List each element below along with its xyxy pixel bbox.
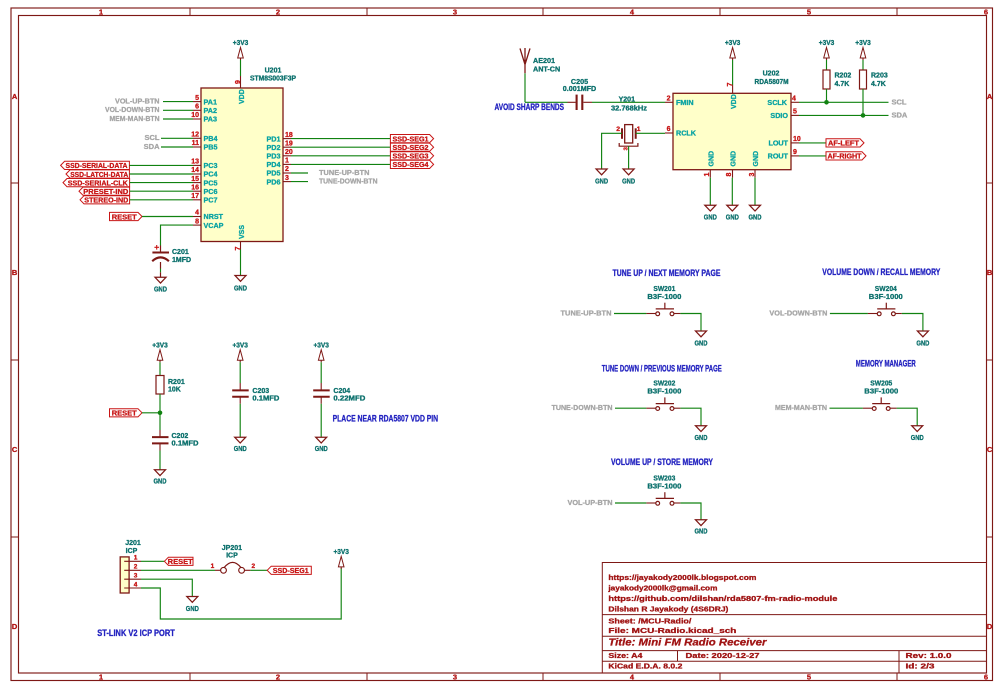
svg-text:C202: C202 (172, 433, 189, 440)
svg-text:File: MCU-Radio.kicad_sch: File: MCU-Radio.kicad_sch (608, 626, 737, 635)
switch SW203 (646, 502, 655, 504)
ground SW202 (696, 426, 707, 432)
svg-text:2: 2 (276, 8, 280, 17)
U202 pin 6 RCLK (665, 132, 673, 134)
svg-text:STEREO-IND: STEREO-IND (84, 196, 129, 205)
wire C201 to GND (160, 262, 162, 269)
J201 pin 2 (124, 569, 141, 571)
svg-text:VSS: VSS (239, 225, 246, 239)
svg-text:2: 2 (134, 564, 138, 571)
svg-text:6: 6 (984, 673, 988, 682)
svg-text:GND: GND (315, 444, 328, 453)
wire J201 pin4 to +3V3 (141, 568, 341, 619)
svg-text:SDIO: SDIO (770, 111, 788, 120)
svg-text:MEM-MAN-BTN: MEM-MAN-BTN (110, 114, 160, 123)
svg-text:ICP: ICP (226, 553, 238, 560)
wire Y201 pin2 to GND (602, 133, 622, 169)
svg-text:AF-RIGHT: AF-RIGHT (828, 152, 862, 161)
svg-text:10: 10 (191, 112, 199, 119)
svg-text:SCLK: SCLK (767, 98, 787, 107)
capacitor C203 (232, 389, 249, 391)
U201 pin 17 PC7 (193, 199, 201, 201)
svg-text:1: 1 (637, 126, 641, 133)
IC U202 body (673, 93, 791, 169)
svg-text:20: 20 (285, 149, 293, 156)
svg-text:1: 1 (99, 673, 103, 682)
ground SW205 (912, 426, 923, 432)
svg-text:6: 6 (667, 126, 671, 133)
U201 pin 7 VSS stub (240, 242, 242, 250)
svg-text:10: 10 (793, 136, 801, 143)
svg-text:9: 9 (235, 80, 242, 84)
ground below Y201 pin2 (596, 169, 607, 175)
svg-text:5: 5 (807, 8, 811, 17)
U202 pin 4 SCLK (791, 101, 799, 103)
svg-text:3: 3 (134, 573, 138, 580)
svg-text:LOUT: LOUT (768, 139, 788, 148)
wire antenna to C205 (525, 101, 568, 103)
wire PRESET-IND to U201 (130, 190, 193, 192)
svg-text:GND: GND (708, 151, 715, 167)
capacitor C205 pin left (568, 101, 576, 103)
capacitor C203 pin bottom (239, 397, 241, 404)
jumper JP201 (215, 569, 221, 571)
U201 pin 11 PB5 (193, 146, 201, 148)
svg-text:B: B (987, 268, 993, 277)
frame column ticks top (189, 8, 191, 16)
svg-text:GND: GND (154, 285, 167, 294)
svg-text:4: 4 (195, 210, 199, 217)
wire Y201 to RCLK (636, 132, 665, 134)
svg-text:6: 6 (984, 8, 988, 17)
svg-text:PLACE NEAR RDA5807 VDD PIN: PLACE NEAR RDA5807 VDD PIN (333, 414, 439, 424)
svg-text:R201: R201 (168, 379, 185, 386)
svg-text:1: 1 (99, 8, 103, 17)
svg-text:J201: J201 (125, 540, 141, 547)
U202 pin 3 GND stub (754, 170, 756, 178)
svg-text:VCAP: VCAP (204, 221, 224, 230)
svg-text:SDA: SDA (144, 142, 160, 151)
title block divider lines (602, 615, 986, 673)
ground below C202 (155, 470, 166, 476)
wire antenna down (524, 73, 526, 102)
wire MEM-MAN-BTN to SW205 (830, 407, 863, 409)
svg-text:Rev: 1.0.0: Rev: 1.0.0 (906, 651, 952, 660)
svg-text:RCLK: RCLK (676, 129, 697, 138)
svg-text:14: 14 (191, 167, 199, 174)
U202 pin 9 ROUT (791, 155, 799, 157)
svg-text:C204: C204 (333, 388, 350, 395)
svg-text:TUNE DOWN / PREVIOUS MEMORY PA: TUNE DOWN / PREVIOUS MEMORY PAGE (602, 363, 722, 373)
wire PD3 to SSD-SEG3 (291, 155, 390, 157)
wire R202 to SCL net (826, 89, 828, 102)
U201 pin 2 PD5 (283, 172, 291, 174)
svg-text:1: 1 (285, 158, 289, 165)
svg-text:TUNE-UP-BTN: TUNE-UP-BTN (561, 308, 612, 317)
svg-text:GND: GND (726, 212, 739, 221)
svg-text:https://github.com/dilshan/rda: https://github.com/dilshan/rda5807-fm-ra… (608, 594, 837, 603)
svg-text:RESET: RESET (112, 212, 137, 221)
capacitor C202 (152, 436, 169, 438)
svg-text:SCL: SCL (145, 133, 160, 142)
global label SSD-SEG3 (390, 152, 433, 160)
wire SSD-LATCH-DATA to U201 (129, 173, 193, 175)
ground U202 pin1 (705, 205, 716, 211)
svg-text:TUNE-DOWN-BTN: TUNE-DOWN-BTN (552, 403, 613, 412)
svg-text:C201: C201 (172, 249, 189, 256)
ground J201 pin3 (187, 597, 198, 603)
wire PD1 to SSD-SEG1 (291, 138, 390, 140)
svg-text:FMIN: FMIN (676, 98, 694, 107)
ground below C204 (316, 437, 327, 443)
wire SSD-SERIAL-DATA to U201 (129, 164, 193, 166)
svg-text:R203: R203 (871, 73, 888, 80)
resistor R203 (860, 70, 867, 89)
svg-text:1MFD: 1MFD (172, 257, 191, 264)
capacitor C204 pin bottom (320, 397, 322, 404)
switch SW205 (863, 407, 872, 409)
svg-text:PA1: PA1 (204, 97, 217, 106)
svg-text:9: 9 (793, 149, 797, 156)
svg-text:U202: U202 (763, 71, 780, 78)
svg-text:11: 11 (192, 140, 200, 147)
svg-text:16: 16 (191, 184, 199, 191)
wire U202 GND1 (709, 178, 711, 206)
svg-text:Title: Mini FM Radio Receiver: Title: Mini FM Radio Receiver (608, 637, 767, 649)
svg-text:GND: GND (753, 151, 760, 167)
svg-text:19: 19 (285, 140, 293, 147)
wire +3V3 to U201 VDD (240, 60, 242, 76)
wire VOL-UP-BTN to U201 (163, 101, 193, 103)
U201 pin 20 PD3 (283, 155, 291, 157)
svg-text:SSD-SEG1: SSD-SEG1 (273, 566, 309, 575)
global label RESET (110, 212, 143, 220)
wire +3V3 to C204 (320, 362, 322, 383)
svg-text:32.768kHz: 32.768kHz (611, 106, 648, 113)
U202 pin 7 VDD stub (732, 85, 734, 93)
frame column ticks bottom (189, 673, 191, 681)
svg-text:GND: GND (154, 477, 167, 486)
svg-text:STM8S003F3P: STM8S003F3P (250, 76, 296, 83)
U201 pin 19 PD2 (283, 146, 291, 148)
op-amp U201 body (201, 88, 283, 242)
svg-text:GND: GND (622, 177, 635, 186)
svg-text:2: 2 (251, 563, 255, 570)
svg-text:3: 3 (453, 8, 457, 17)
U201 pin 13 PC3 (193, 164, 201, 166)
wire PD to TUNE-DOWN-BTN (291, 181, 308, 183)
global label SSD-SEG1 at JP201 (267, 566, 311, 574)
svg-text:VOL-UP-BTN: VOL-UP-BTN (115, 97, 160, 106)
U201 pin 8 VCAP (193, 224, 201, 226)
svg-text:1: 1 (211, 563, 215, 570)
svg-text:1: 1 (704, 172, 711, 176)
wire VOL-UP-BTN to SW203 (615, 502, 646, 504)
junction SDA (861, 113, 866, 118)
svg-text:0.1MFD: 0.1MFD (252, 395, 279, 402)
title block outline (602, 563, 986, 674)
svg-text:2: 2 (616, 126, 620, 133)
wire MEM-MAN-BTN to U201 (163, 118, 193, 120)
svg-text:SCL: SCL (892, 98, 907, 107)
wire Y201 case to GND (628, 146, 630, 169)
svg-text:VOLUME UP / STORE MEMORY: VOLUME UP / STORE MEMORY (611, 457, 713, 467)
capacitor C201 (152, 252, 169, 254)
crystal Y201 (625, 125, 633, 143)
svg-text:4.7K: 4.7K (835, 81, 850, 88)
wire U202 GND3 (754, 178, 756, 206)
svg-text:A: A (987, 92, 993, 101)
svg-text:0.001MFD: 0.001MFD (563, 84, 597, 93)
capacitor C202 pin bottom (159, 444, 161, 451)
svg-text:8: 8 (195, 218, 199, 225)
ground U202 pin8 (727, 205, 738, 211)
ground SW201 (696, 331, 707, 337)
svg-text:VDD: VDD (239, 89, 246, 104)
wire SCL to U201 (161, 137, 193, 139)
svg-text:PC7: PC7 (204, 196, 218, 205)
wire TUNE-UP-BTN to SW201 (614, 313, 646, 315)
svg-text:PA3: PA3 (204, 115, 217, 124)
global label RESET at J201 (164, 557, 193, 565)
capacitor C202 pin top (159, 430, 161, 437)
svg-text:TUNE-DOWN-BTN: TUNE-DOWN-BTN (319, 177, 378, 186)
global label SSD-LATCH-DATA (66, 170, 129, 178)
svg-text:GND: GND (749, 212, 762, 221)
svg-text:TUNE UP / NEXT MEMORY PAGE: TUNE UP / NEXT MEMORY PAGE (613, 268, 721, 278)
ground below C203 (235, 437, 246, 443)
svg-text:Y201: Y201 (619, 97, 635, 104)
ground U202 pin3 (750, 205, 761, 211)
svg-text:B3F-1000: B3F-1000 (647, 482, 681, 491)
J201 pin 1 (124, 560, 141, 562)
U201 pin 12 PB4 (193, 137, 201, 139)
wire C202 to GND (159, 451, 161, 470)
svg-text:MEMORY MANAGER: MEMORY MANAGER (856, 359, 916, 369)
svg-text:6: 6 (195, 104, 199, 111)
wire VSS to GND (240, 250, 242, 276)
ground below U201 VSS (235, 276, 246, 282)
capacitor C201 pin top (160, 246, 162, 253)
wire VCAP to C201 (161, 225, 194, 245)
switch SW202 (646, 407, 655, 409)
svg-text:C: C (12, 445, 18, 454)
antenna AE201 (520, 48, 530, 73)
wire VOL-DOWN-BTN to U201 (163, 109, 193, 111)
svg-text:GND: GND (695, 339, 708, 348)
svg-text:A: A (12, 92, 18, 101)
wire SDA to U201 (161, 146, 193, 148)
svg-text:B3F-1000: B3F-1000 (647, 292, 681, 301)
svg-text:17: 17 (191, 193, 199, 200)
svg-text:3: 3 (453, 673, 457, 682)
wire SCLK to SCL (799, 101, 889, 103)
wire R201 to junction (159, 394, 161, 413)
ground SW203 (696, 520, 707, 526)
svg-text:PB4: PB4 (204, 134, 218, 143)
svg-text:KiCad E.D.A. 8.0.2: KiCad E.D.A. 8.0.2 (608, 662, 682, 671)
U201 pin 16 PC6 (193, 190, 201, 192)
svg-text:15: 15 (191, 176, 199, 183)
svg-text:AVOID SHARP BENDS: AVOID SHARP BENDS (495, 102, 565, 112)
global label RESET at R201 (110, 409, 143, 417)
J201 pin 3 (124, 578, 141, 580)
U201 pin 3 PD6 (283, 181, 291, 183)
svg-text:8: 8 (726, 172, 733, 176)
wire LOUT to AF-LEFT (799, 142, 826, 144)
svg-text:ST-LINK V2 ICP PORT: ST-LINK V2 ICP PORT (97, 628, 175, 638)
wire J201 pin3 to GND (141, 579, 192, 596)
wire STEREO-IND to U201 (130, 199, 193, 201)
svg-text:VDD: VDD (731, 94, 738, 109)
wire PD to TUNE-UP-BTN (291, 172, 308, 174)
svg-text:VOLUME DOWN / RECALL MEMORY: VOLUME DOWN / RECALL MEMORY (822, 267, 940, 277)
wire SW203 to GND (680, 503, 701, 520)
capacitor C203 pin top (239, 383, 241, 390)
capacitor C204 pin top (320, 383, 322, 390)
svg-text:5: 5 (195, 95, 199, 102)
svg-text:ANT-CN: ANT-CN (533, 64, 560, 73)
global label SSD-SEG4 (390, 160, 433, 168)
svg-text:2: 2 (285, 166, 289, 173)
U201 pin 15 PC5 (193, 182, 201, 184)
wire R203 to SDA net (862, 89, 864, 115)
wire RESET to junction (142, 412, 160, 414)
wire VOL-DOWN-BTN to SW204 (830, 313, 868, 315)
svg-text:PB5: PB5 (204, 143, 218, 152)
svg-text:U201: U201 (265, 68, 282, 75)
global label SSD-SEG2 (390, 143, 433, 151)
svg-text:RESET: RESET (112, 409, 137, 418)
svg-text:C203: C203 (252, 388, 269, 395)
ground SW204 (917, 331, 928, 337)
capacitor C204 (313, 389, 330, 391)
junction SCL (824, 100, 829, 105)
svg-text:1: 1 (134, 555, 138, 562)
svg-text:B: B (12, 268, 18, 277)
global label STEREO-IND (80, 196, 130, 204)
svg-text:Id: 2/3: Id: 2/3 (906, 662, 935, 671)
wire J201 pin1 to RESET (141, 560, 164, 562)
svg-text:Size: A4: Size: A4 (608, 651, 643, 660)
wire C204 to GND (320, 404, 322, 437)
svg-text:RESET: RESET (168, 557, 193, 566)
svg-text:GND: GND (234, 444, 247, 453)
svg-text:https://jayakody2000lk.blogspo: https://jayakody2000lk.blogspot.com (608, 573, 756, 582)
U202 pin 10 LOUT (791, 142, 799, 144)
U202 pin 2 FMIN (665, 101, 673, 103)
wire +3V3 to C203 (239, 362, 241, 383)
U202 pin 1 GND stub (709, 170, 711, 178)
svg-text:4.7K: 4.7K (871, 81, 886, 88)
wire SW204 to GND (902, 314, 923, 332)
connector J201 body (120, 557, 129, 593)
wire J201 pin2 to JP201 (141, 569, 215, 571)
U201 pin 14 PC4 (193, 173, 201, 175)
svg-text:GND: GND (186, 604, 199, 613)
svg-text:GND: GND (695, 433, 708, 442)
switch SW201 (646, 313, 655, 315)
svg-text:AF-LEFT: AF-LEFT (828, 139, 859, 148)
svg-text:7: 7 (727, 82, 734, 86)
svg-text:10K: 10K (168, 386, 181, 393)
wire SW202 to GND (680, 408, 701, 426)
svg-text:PA2: PA2 (204, 106, 217, 115)
svg-text:3: 3 (285, 175, 289, 182)
svg-text:GND: GND (911, 433, 924, 442)
global label AF-RIGHT (826, 152, 866, 160)
wire PD2 to SSD-SEG2 (291, 146, 390, 148)
ground below Y201 case (623, 169, 634, 175)
capacitor C205 pin right (583, 101, 592, 103)
svg-text:3: 3 (749, 172, 756, 176)
svg-text:VOL-DOWN-BTN: VOL-DOWN-BTN (769, 308, 827, 317)
wire SW201 to GND (680, 314, 701, 332)
svg-text:GND: GND (234, 284, 247, 293)
U201 pin 6 PA2 (193, 109, 201, 111)
svg-text:0.1MFD: 0.1MFD (172, 441, 199, 448)
svg-text:GND: GND (595, 177, 608, 186)
svg-text:RDA5807M: RDA5807M (755, 79, 789, 86)
svg-text:B3F-1000: B3F-1000 (869, 292, 903, 301)
U201 pin 1 PD4 (283, 163, 291, 165)
svg-text:Sheet: /MCU-Radio/: Sheet: /MCU-Radio/ (608, 616, 691, 625)
svg-text:B3F-1000: B3F-1000 (864, 387, 898, 396)
svg-text:GND: GND (695, 527, 708, 536)
wire SDIO to SDA (799, 114, 889, 116)
svg-text:SSD-SEG4: SSD-SEG4 (393, 160, 430, 169)
switch SW204 (868, 313, 877, 315)
U201 pin 4 NRST (193, 216, 201, 218)
svg-text:ROUT: ROUT (768, 152, 789, 161)
U201 pin 10 PA3 (193, 118, 201, 120)
svg-text:Dilshan R Jayakody (4S6DRJ): Dilshan R Jayakody (4S6DRJ) (608, 605, 729, 614)
U201 pin 5 PA1 (193, 101, 201, 103)
wire junction to C202 (159, 413, 161, 430)
svg-text:2: 2 (667, 95, 671, 102)
svg-text:4: 4 (134, 581, 138, 588)
svg-text:2: 2 (276, 673, 280, 682)
svg-text:SDA: SDA (892, 111, 908, 120)
junction RESET node (158, 411, 163, 416)
wire +3V3 to U202 VDD (732, 60, 734, 85)
svg-text:B3F-1000: B3F-1000 (647, 387, 681, 396)
wire SW205 to GND (897, 408, 918, 426)
global label SSD-SERIAL-DATA (61, 161, 130, 169)
svg-text:C: C (987, 445, 993, 454)
wire JP201 to SSD-SEG1 (250, 569, 267, 571)
resistor R202 (823, 70, 830, 89)
wire ROUT to AF-RIGHT (799, 155, 826, 157)
pin 9 VDD stub U201 (240, 76, 242, 88)
capacitor C205 (576, 95, 578, 110)
svg-text:4: 4 (792, 95, 796, 102)
wire RESET to NRST (142, 216, 193, 218)
wire PD4 to SSD-SEG4 (291, 163, 390, 165)
wire +3V3 to R201 (159, 362, 161, 375)
svg-text:0.22MFD: 0.22MFD (333, 395, 365, 402)
svg-text:R202: R202 (835, 73, 852, 80)
global label SSD-SERIAL-CLK (63, 179, 130, 187)
J201 pin 4 (124, 587, 141, 589)
svg-text:D: D (987, 622, 993, 631)
svg-text:PD6: PD6 (267, 177, 281, 186)
svg-text:GND: GND (731, 151, 738, 167)
wire C205 to FMIN (592, 101, 665, 103)
svg-text:GND: GND (704, 212, 717, 221)
Y201 case bracket (619, 143, 638, 146)
svg-text:JP201: JP201 (222, 545, 242, 552)
